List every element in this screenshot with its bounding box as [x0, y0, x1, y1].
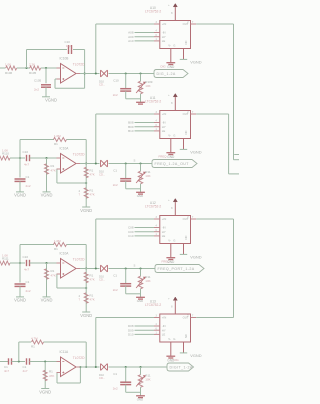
svg-text:G: G	[173, 43, 175, 47]
svg-text:R1: R1	[49, 370, 53, 374]
svg-text:VGND: VGND	[80, 208, 92, 213]
svg-text:VGND: VGND	[14, 298, 26, 303]
svg-text:DIG: DIG	[161, 64, 167, 68]
svg-text:CD...: CD...	[99, 173, 105, 177]
svg-text:TL072D: TL072D	[73, 63, 85, 67]
svg-text:2n2: 2n2	[113, 183, 118, 187]
svg-text:47K: 47K	[90, 173, 95, 177]
svg-text:VGND: VGND	[190, 150, 201, 155]
svg-text:G: G	[173, 337, 175, 341]
svg-text:C10: C10	[128, 234, 134, 238]
svg-text:10K: 10K	[145, 174, 150, 178]
svg-text:R106: R106	[5, 71, 13, 75]
svg-text:1.0M: 1.0M	[54, 239, 61, 243]
svg-text:+IN: +IN	[162, 112, 166, 116]
svg-text:C10: C10	[23, 150, 29, 154]
svg-text:10K: 10K	[145, 279, 150, 283]
svg-text:NC: NC	[184, 334, 188, 338]
svg-text:NC: NC	[184, 40, 188, 44]
svg-text:V-: V-	[168, 238, 171, 242]
svg-text:2n2: 2n2	[113, 288, 118, 292]
svg-text:IC11A: IC11A	[60, 350, 69, 354]
svg-text:10K: 10K	[145, 84, 150, 88]
svg-text:VGND: VGND	[41, 193, 53, 198]
svg-text:D10: D10	[128, 333, 134, 337]
svg-text:CD...: CD...	[99, 278, 105, 282]
svg-text:DIG_1-2A: DIG_1-2A	[157, 72, 176, 76]
svg-text:47K: 47K	[49, 374, 54, 378]
svg-text:TL072D: TL072D	[73, 153, 85, 157]
svg-text:C1: C1	[113, 274, 117, 278]
svg-text:V-: V-	[168, 337, 171, 341]
svg-text:IC10A: IC10A	[60, 146, 70, 150]
svg-text:+IN: +IN	[162, 316, 166, 320]
svg-text:LE: LE	[162, 39, 166, 43]
svg-text:C105: C105	[34, 78, 42, 82]
svg-text:+IN: +IN	[162, 217, 166, 221]
svg-text:47K: 47K	[90, 193, 95, 197]
svg-text:CD...: CD...	[99, 83, 105, 87]
svg-text:GND: GND	[137, 398, 143, 402]
svg-text:47K: 47K	[90, 298, 95, 302]
svg-text:DIG: DIG	[174, 358, 180, 362]
svg-text:IC10B: IC10B	[60, 56, 69, 60]
svg-text:C1: C1	[26, 280, 30, 284]
svg-text:LTC6752-2: LTC6752-2	[145, 9, 161, 13]
svg-text:2n2: 2n2	[26, 289, 31, 293]
svg-text:2n2: 2n2	[113, 93, 118, 97]
svg-text:LE: LE	[162, 333, 166, 337]
svg-text:4n7: 4n7	[4, 369, 9, 373]
svg-text:VGND: VGND	[190, 60, 201, 65]
svg-text:FREQ: FREQ	[159, 154, 168, 158]
svg-text:LE: LE	[162, 129, 166, 133]
svg-text:NC: NC	[184, 235, 188, 239]
svg-text:2n2: 2n2	[113, 387, 118, 391]
svg-text:V-: V-	[168, 133, 171, 137]
svg-text:R105: R105	[29, 71, 37, 75]
svg-text:VGND: VGND	[190, 353, 201, 358]
svg-text:2.2K: 2.2K	[29, 62, 35, 66]
svg-text:2n2: 2n2	[34, 88, 39, 92]
svg-text:GND: GND	[167, 260, 175, 264]
svg-text:NC: NC	[184, 130, 188, 134]
svg-text:TL072D: TL072D	[73, 258, 85, 262]
svg-text:4n7: 4n7	[24, 163, 29, 167]
svg-text:R110: R110	[2, 152, 9, 156]
svg-text:C10: C10	[23, 255, 29, 259]
svg-text:4n7: 4n7	[23, 369, 28, 373]
svg-text:47K: 47K	[51, 169, 56, 173]
svg-text:R1: R1	[54, 247, 58, 251]
svg-text:VGND: VGND	[39, 389, 51, 394]
svg-text:+IN: +IN	[162, 22, 166, 26]
svg-text:47K: 47K	[51, 274, 56, 278]
svg-text:IC10A: IC10A	[60, 251, 70, 255]
svg-text:GND: GND	[167, 65, 175, 69]
svg-text:FREQ_PORT_1-2A: FREQ_PORT_1-2A	[158, 267, 195, 271]
svg-text:VGND: VGND	[41, 298, 53, 303]
svg-text:LTC6752-2: LTC6752-2	[145, 204, 161, 208]
svg-text:DIGIT_1-2A: DIGIT_1-2A	[170, 366, 193, 370]
svg-text:LE: LE	[162, 234, 166, 238]
svg-text:47K: 47K	[90, 278, 95, 282]
svg-text:TL072D: TL072D	[73, 356, 85, 360]
svg-text:CD...: CD...	[99, 376, 105, 380]
svg-text:R1: R1	[51, 164, 55, 168]
svg-text:V-: V-	[168, 43, 171, 47]
svg-text:LTC6752-2: LTC6752-2	[145, 303, 161, 307]
svg-text:VGND: VGND	[80, 313, 92, 318]
svg-text:LTC6752-2: LTC6752-2	[145, 99, 161, 103]
svg-text:VGND: VGND	[45, 98, 57, 103]
svg-text:R1: R1	[51, 269, 55, 273]
svg-text:1.0M: 1.0M	[54, 134, 61, 138]
svg-text:A10: A10	[128, 39, 134, 43]
svg-text:GND: GND	[137, 194, 143, 198]
svg-text:GND: GND	[167, 155, 175, 159]
svg-text:GND: GND	[137, 299, 143, 303]
svg-text:S: S	[134, 264, 136, 268]
svg-text:FREQ_1-2A_OUT: FREQ_1-2A_OUT	[155, 162, 190, 166]
svg-text:G: G	[173, 133, 175, 137]
svg-text:R1: R1	[31, 344, 35, 348]
svg-text:4.7M: 4.7M	[31, 336, 38, 340]
svg-text:C1: C1	[113, 169, 117, 173]
svg-text:VGND: VGND	[14, 193, 26, 198]
svg-text:VGND: VGND	[190, 255, 201, 260]
svg-text:1.0K: 1.0K	[5, 62, 11, 66]
svg-text:4n7: 4n7	[24, 268, 29, 272]
svg-text:C1: C1	[26, 175, 30, 179]
svg-text:10p: 10p	[66, 44, 71, 48]
svg-text:C1: C1	[113, 372, 117, 376]
svg-text:10K: 10K	[145, 378, 150, 382]
svg-text:R1: R1	[54, 142, 58, 146]
svg-text:G: G	[173, 238, 175, 242]
svg-text:C10: C10	[113, 79, 119, 83]
svg-text:2n2: 2n2	[26, 184, 31, 188]
svg-text:GND: GND	[167, 359, 175, 363]
svg-text:S: S	[134, 159, 136, 163]
svg-text:B10: B10	[128, 129, 134, 133]
svg-text:R111: R111	[2, 257, 9, 261]
